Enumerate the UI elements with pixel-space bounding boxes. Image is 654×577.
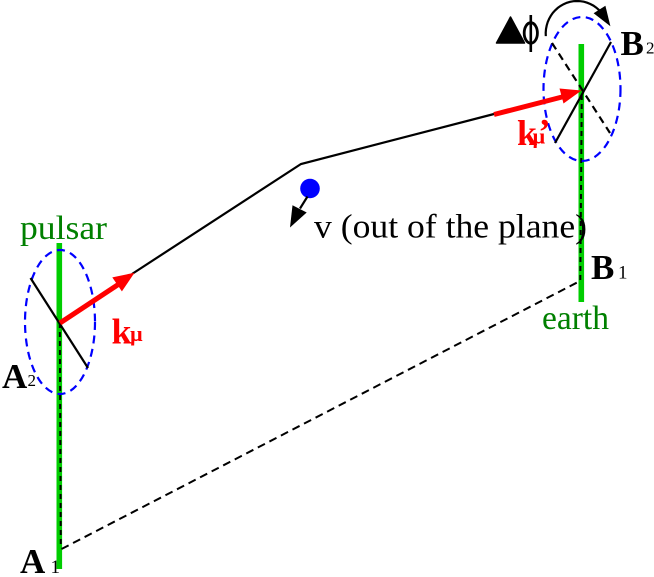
svg-text:B: B (591, 248, 614, 287)
svg-text:1: 1 (51, 557, 61, 577)
label: B2 (621, 24, 654, 63)
label: k_mu (red) (112, 312, 144, 352)
label: B1 (591, 248, 628, 287)
svg-text:µ: µ (130, 321, 143, 346)
earth frame tilted solid black line (555, 42, 611, 143)
svg-text:A: A (20, 542, 46, 577)
earth rotation axis (green vertical line) (578, 44, 584, 302)
svg-text:earth: earth (542, 300, 609, 337)
svg-text:1: 1 (618, 263, 628, 284)
dashed axis segment inside earth line (B1 to B2) (580, 91, 582, 280)
label: A2 (2, 357, 36, 396)
dashed axis segment inside pulsar line (A2 to A1) (60, 323, 61, 548)
red arrow k'_mu at earth (494, 89, 582, 115)
svg-text:’: ’ (539, 112, 551, 152)
label: A1 (20, 542, 60, 577)
svg-text:2: 2 (646, 39, 654, 58)
pulsar emission cone (dashed blue ellipse) (25, 250, 95, 394)
photon path (black polyline from pulsar to earth) (132, 114, 494, 274)
small black arrow from blue dot (290, 197, 308, 228)
blue dot (velocity v out of plane) (300, 179, 320, 199)
svg-text:k: k (112, 312, 132, 352)
earth reception cone (dashed blue ellipse) (544, 17, 621, 161)
pulsar rotation axis (green vertical line) (56, 243, 62, 569)
label: k'_mu (red) (517, 112, 551, 154)
svg-text:B: B (621, 24, 644, 63)
dashed line of sight A1 to B1 (62, 281, 581, 549)
svg-text:2: 2 (28, 371, 37, 390)
pulsar beam axis (tilted solid black line) (31, 278, 89, 368)
svg-text:A: A (2, 357, 28, 396)
rotation arc arrow (delta phi) (546, 1, 611, 36)
earth frame tilted dashed black line (552, 43, 610, 133)
svg-text:pulsar: pulsar (20, 210, 108, 247)
label: delta (of delta phi) (497, 17, 525, 43)
label: phi (of delta phi) (524, 15, 537, 52)
svg-text:v (out of the plane): v (out of the plane) (314, 209, 587, 246)
red arrow k_mu at pulsar (60, 273, 135, 323)
